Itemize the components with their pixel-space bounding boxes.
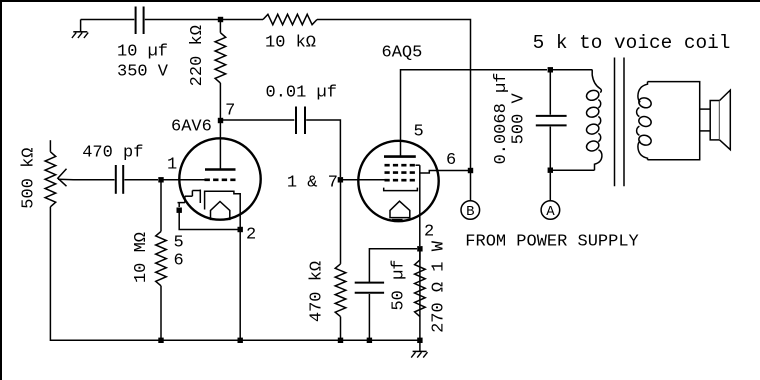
U1 grid wire from pin 1 (161, 179, 205, 181)
U2 cathode tent (390, 201, 410, 217)
svg-text:1 & 7: 1 & 7 (287, 174, 338, 193)
U1 diode plates (pins 5,6) (199, 190, 201, 204)
wire C2 to grid node (124, 179, 158, 181)
transformer T1 secondary winding (638, 82, 648, 103)
node screen/B+ junction (468, 168, 473, 173)
node 6AV6 pin 2 (238, 227, 243, 232)
svg-text:A: A (546, 204, 555, 220)
wire U2 plate pin 5 up (401, 70, 548, 157)
border frame left line (0, 0, 2, 380)
wire C3 to 6AQ5 grid node (306, 120, 340, 177)
potentiometer VR1 500 kOhm (49, 140, 51, 152)
U2 grid row g1 (385, 164, 416, 167)
capacitor C2 470 pf (115, 165, 117, 194)
node plate junction 6AV6 pin 7 (218, 118, 223, 123)
tube U1 6AV6 envelope (179, 138, 260, 219)
wire C1 to node P7 (145, 19, 218, 21)
wire wiper to C2 (74, 179, 115, 181)
U2 grid row g2 (385, 171, 416, 174)
node 6AV6 grid / R3 junction (158, 177, 163, 182)
U2 cathode bar (384, 188, 418, 191)
border frame top line (0, 0, 760, 2)
node 6AQ5 cathode junction (417, 246, 422, 251)
bus wire bottom (161, 339, 420, 341)
speaker LS1 horn (720, 90, 731, 150)
wire B+ vertical to terminal B (470, 173, 472, 201)
U1 plate bar (205, 168, 236, 171)
svg-text:350 V: 350 V (117, 62, 169, 81)
node U1 diode junction (177, 208, 182, 213)
U1 grid dashes (205, 179, 236, 182)
wire diodes to cathode node (179, 213, 237, 230)
wire A terminal up (549, 173, 551, 201)
svg-text:7: 7 (225, 102, 235, 121)
svg-text:5 k to voice coil: 5 k to voice coil (533, 32, 731, 54)
wire R2 to B+ corner (317, 20, 471, 169)
resistor R2 10 kOhm (horizontal) (263, 14, 317, 24)
node bus-R4 (338, 338, 343, 343)
U1 cathode tent (211, 202, 230, 220)
node bus-U1pin2 (238, 338, 243, 343)
svg-text:6: 6 (174, 252, 184, 271)
capacitor C4 0.0068uf/500V (549, 70, 551, 115)
capacitor C1 10uf/350V (135, 7, 137, 35)
node 6AQ5 grid (pins 1 and 7) (338, 177, 343, 182)
resistor R1 220 kOhm (vertical) (219, 20, 221, 33)
wire pin2 to bus (239, 232, 241, 338)
svg-text:6: 6 (446, 151, 456, 170)
svg-text:B: B (466, 204, 474, 220)
node bus-R5 (417, 338, 422, 343)
node bus-C5 (367, 338, 372, 343)
svg-text:0.0068 µf: 0.0068 µf (492, 73, 511, 165)
wire top node to primary (553, 69, 592, 71)
ground GND1 (top left) (80, 20, 82, 32)
svg-text:FROM POWER SUPPLY: FROM POWER SUPPLY (465, 232, 638, 251)
svg-text:10 MΩ: 10 MΩ (132, 232, 151, 283)
wire bottom node to primary (553, 169, 595, 171)
wire cathode node to bus (419, 251, 421, 338)
svg-text:50 µf: 50 µf (390, 259, 409, 310)
wire grid node into U2 (343, 179, 385, 181)
speaker LS1 driver (710, 101, 719, 140)
U2 heater dash (392, 219, 403, 221)
terminal B circle (461, 201, 480, 220)
svg-text:6AQ5: 6AQ5 (382, 43, 423, 62)
wire U2 screen pin 6 to B+ (420, 171, 468, 174)
svg-text:6AV6: 6AV6 (171, 118, 212, 137)
capacitor C5 50 uf (369, 249, 417, 282)
svg-text:220 kΩ: 220 kΩ (188, 25, 207, 86)
svg-text:5: 5 (414, 123, 424, 142)
wire ground to C1 (81, 19, 135, 21)
resistor R3 10 MOhm (160, 182, 162, 231)
tube U2 6AQ5 envelope (358, 141, 438, 221)
svg-text:470 pf: 470 pf (82, 144, 143, 163)
wire node to R2 (223, 19, 263, 21)
capacitor C3 0.01uf (295, 107, 297, 135)
node C4/primary top (548, 67, 553, 72)
svg-text:2: 2 (246, 226, 256, 245)
wire U2 internal to pin 2 (419, 165, 421, 246)
svg-text:2: 2 (424, 223, 434, 242)
resistor R5 270 Ohm 1 W (419, 249, 421, 260)
svg-text:1: 1 (167, 156, 177, 175)
wire 6AV6 pin7 into plate (219, 122, 221, 170)
terminal A circle (541, 201, 560, 220)
svg-text:500 V: 500 V (510, 93, 529, 145)
node top-1 junction (218, 17, 223, 22)
svg-text:10 µf: 10 µf (117, 43, 168, 62)
wire pin7 to C3 (223, 119, 294, 121)
svg-text:470 kΩ: 470 kΩ (308, 261, 327, 322)
U2 grid connector (416, 164, 420, 166)
svg-text:10 kΩ: 10 kΩ (265, 34, 316, 53)
VR1 wiper arrow (58, 169, 67, 186)
svg-text:0.01 µf: 0.01 µf (266, 84, 337, 103)
svg-text:270 Ω 1 W: 270 Ω 1 W (430, 240, 449, 333)
U2 plate bar (384, 155, 416, 158)
resistor R4 470 kOhm (340, 182, 342, 264)
wire secondary loop to speaker (648, 82, 700, 160)
wire VR1 bottom to bus corner (50, 207, 161, 340)
transformer T1 core (614, 58, 616, 187)
ground GND2 (bottom) (419, 342, 421, 351)
transformer T1 primary winding (592, 70, 601, 93)
U1 cathode box (205, 191, 241, 227)
node C4/primary bottom (548, 168, 553, 173)
svg-text:500 kΩ: 500 kΩ (20, 147, 39, 208)
speaker stub wires (700, 108, 711, 110)
U2 grid row g3 (385, 179, 416, 182)
node bus-R3 (158, 338, 163, 343)
svg-text:5: 5 (174, 234, 184, 253)
